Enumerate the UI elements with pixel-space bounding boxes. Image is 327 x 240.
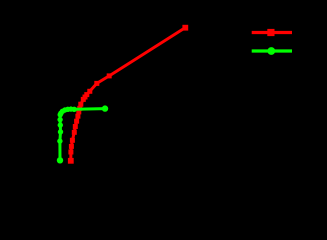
red series markers (squares)	[68, 25, 188, 164]
legend green sample line	[252, 49, 292, 52]
legend red sample marker	[267, 29, 274, 36]
red series line	[71, 28, 186, 161]
green series line	[60, 109, 105, 161]
legend red sample line	[252, 31, 292, 34]
green series markers (circles)	[57, 105, 108, 163]
legend green sample marker	[267, 47, 275, 55]
